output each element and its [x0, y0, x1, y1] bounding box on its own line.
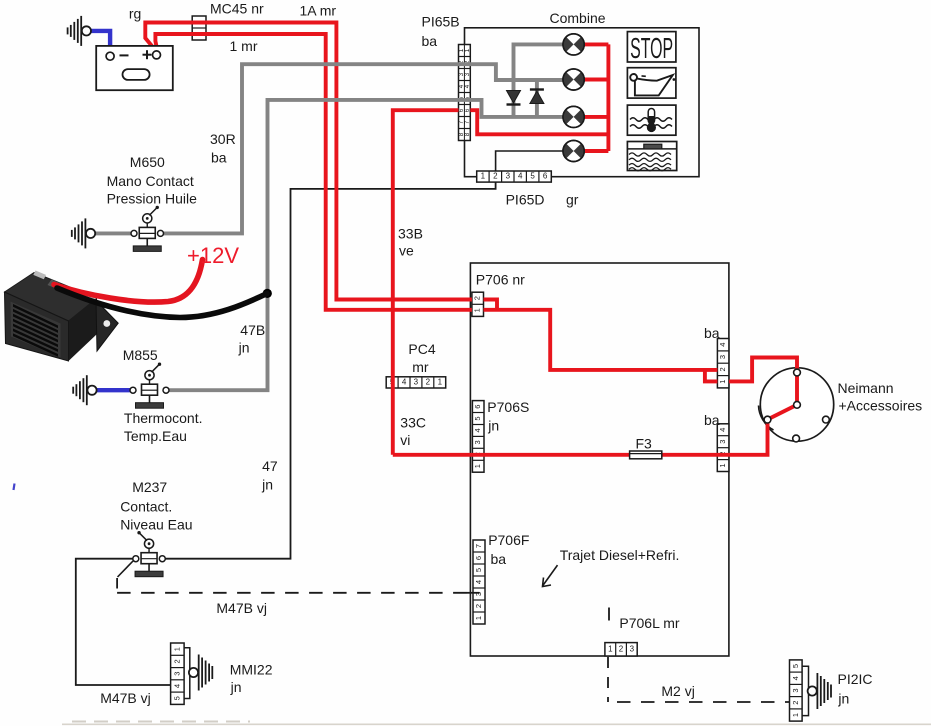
Neimann port left — [764, 416, 771, 423]
wire 47B jn: M855 to PI65B pin5 and lamp3 — [166, 100, 563, 390]
svg-text:5: 5 — [474, 568, 483, 572]
svg-text:ba: ba — [491, 551, 507, 567]
connector P706L — [605, 643, 637, 656]
svg-text:3: 3 — [630, 644, 635, 653]
svg-text:6: 6 — [464, 108, 471, 112]
svg-text:5: 5 — [791, 664, 800, 668]
svg-text:5: 5 — [530, 172, 535, 181]
svg-text:4: 4 — [791, 676, 800, 680]
svg-text:jn: jn — [261, 477, 273, 493]
svg-text:rg: rg — [129, 6, 141, 22]
ground battery — [68, 16, 91, 46]
Neimann port center — [794, 401, 801, 408]
svg-text:7: 7 — [474, 544, 483, 548]
svg-text:Pression Huile: Pression Huile — [107, 191, 197, 207]
svg-text:2: 2 — [474, 604, 483, 608]
wire P706 pin2 loop — [484, 300, 498, 310]
svg-text:2: 2 — [619, 644, 624, 653]
faint scan line bottom — [62, 723, 931, 725]
dashed wire M2 vj vertical — [607, 657, 609, 702]
Combine instrument-cluster box — [465, 28, 700, 177]
wire battery ground (blue) — [91, 31, 111, 52]
svg-text:PC4: PC4 — [408, 341, 435, 357]
svg-text:M855: M855 — [123, 347, 158, 363]
icon coolant level — [627, 142, 676, 171]
svg-text:3: 3 — [172, 672, 181, 676]
svg-text:3: 3 — [473, 440, 482, 444]
connector PC4 — [386, 377, 446, 388]
svg-text:MC45 nr: MC45 nr — [210, 1, 264, 17]
svg-text:4: 4 — [473, 428, 482, 432]
svg-text:ba: ba — [211, 150, 227, 166]
MMI22 mating bracket — [184, 648, 190, 699]
slash at M237 contact — [118, 561, 134, 578]
connector PI65D — [477, 171, 552, 182]
svg-text:3: 3 — [718, 355, 727, 359]
svg-text:47: 47 — [262, 458, 278, 474]
icon water temperature — [627, 105, 676, 135]
svg-text:4: 4 — [464, 84, 471, 88]
svg-text:F3: F3 — [636, 436, 653, 452]
svg-text:jn: jn — [487, 418, 499, 434]
svg-text:P706F: P706F — [488, 532, 529, 548]
svg-text:7: 7 — [464, 120, 471, 124]
wire M855 ground (blue) — [95, 388, 133, 392]
dash segment through P706F pin3 — [467, 592, 480, 594]
svg-text:6: 6 — [474, 556, 483, 560]
svg-text:M650: M650 — [130, 154, 165, 170]
ground M650 — [72, 218, 95, 248]
svg-text:jn: jn — [238, 340, 250, 356]
switch M237 niveau eau — [133, 531, 166, 577]
diode D1 (left, pointing down) — [507, 91, 521, 105]
dashed wire M2 vj horizontal — [617, 701, 790, 703]
lamp L3 temp — [563, 106, 584, 127]
lamp bus vertical — [606, 44, 610, 151]
svg-text:2: 2 — [493, 172, 498, 181]
lamp1 red stub — [584, 42, 608, 46]
wire M237 to MMI22 — [76, 559, 171, 685]
buzzer (photo) — [5, 260, 268, 362]
svg-text:gr: gr — [566, 192, 579, 208]
svg-text:5: 5 — [172, 696, 181, 700]
Neimann port top — [794, 369, 801, 376]
svg-text:Thermocont.: Thermocont. — [124, 410, 203, 426]
svg-text:1: 1 — [473, 464, 482, 468]
wire 30R ba: M650 to PI65B pin2 and lamp2 — [161, 64, 564, 233]
scan artifact blue tick — [14, 484, 15, 491]
svg-text:8: 8 — [464, 132, 471, 136]
svg-text:1: 1 — [464, 48, 471, 52]
wire lamp1 feed / diode stem — [514, 44, 564, 117]
svg-text:4: 4 — [518, 172, 523, 181]
node junction 47B — [263, 289, 272, 298]
svg-text:3: 3 — [414, 378, 419, 387]
svg-text:Combine: Combine — [550, 10, 606, 26]
battery — [96, 46, 173, 90]
svg-text:47B: 47B — [240, 322, 265, 338]
svg-text:P706S: P706S — [487, 399, 529, 415]
icon STOP — [627, 32, 676, 66]
Neimann port bottom — [793, 435, 800, 442]
ground PI2IC — [808, 673, 831, 709]
ground M855 — [73, 375, 96, 405]
svg-text:M47B vj: M47B vj — [216, 600, 267, 616]
switch M855 thermocontact — [130, 363, 169, 409]
svg-text:2: 2 — [791, 701, 800, 705]
svg-text:3: 3 — [791, 688, 800, 692]
svg-text:2: 2 — [718, 367, 727, 371]
svg-text:PI65D: PI65D — [506, 192, 545, 208]
svg-text:PI65B: PI65B — [422, 14, 460, 30]
connector P706S — [472, 401, 484, 473]
wire P706 pin1 to ba upper — [484, 310, 718, 370]
wire 33C vi / F3 to Neimann — [393, 421, 768, 455]
svg-text:6: 6 — [543, 172, 548, 181]
svg-text:ve: ve — [399, 243, 414, 259]
PI2IC mating bracket — [802, 666, 808, 715]
ground MMI22 — [189, 655, 212, 691]
svg-text:3: 3 — [718, 440, 727, 444]
svg-text:4: 4 — [718, 343, 727, 347]
svg-text:1: 1 — [791, 713, 800, 717]
svg-text:M47B vj: M47B vj — [100, 690, 151, 706]
svg-text:Trajet Diesel+Refri.: Trajet Diesel+Refri. — [560, 547, 680, 563]
svg-text:ba: ba — [422, 33, 438, 49]
svg-text:MMI22: MMI22 — [230, 662, 273, 678]
svg-text:4: 4 — [402, 378, 407, 387]
connector P706 nr — [472, 292, 484, 316]
svg-text:ba: ba — [704, 412, 720, 428]
wire 47 jn: PI65D pin2 to M237 — [166, 182, 496, 559]
svg-text:P706 nr: P706 nr — [476, 272, 525, 288]
svg-text:33B: 33B — [398, 226, 423, 242]
svg-text:1: 1 — [473, 308, 482, 312]
svg-text:4: 4 — [172, 684, 181, 688]
svg-text:1: 1 — [481, 172, 486, 181]
svg-text:vi: vi — [400, 432, 410, 448]
svg-text:M2 vj: M2 vj — [661, 683, 694, 699]
diode D2 (right, pointing up) — [530, 90, 544, 104]
wire lamp4 to PI65D pin2 — [496, 151, 563, 171]
svg-text:3: 3 — [464, 72, 471, 76]
Neimann port right — [823, 416, 830, 423]
wire PI65B pin6 to lamp bus — [470, 110, 608, 134]
lamp L1 stop — [563, 34, 584, 55]
connector ba lower — [717, 424, 729, 472]
svg-text:2: 2 — [172, 659, 181, 663]
Neimann ignition switch body — [760, 368, 833, 441]
wire MC45 nr (battery + to top rail) — [145, 23, 472, 300]
svg-text:Niveau Eau: Niveau Eau — [120, 517, 192, 533]
svg-text:jn: jn — [837, 691, 849, 707]
connector ba upper — [717, 339, 729, 388]
connector PI2IC — [790, 660, 803, 721]
svg-text:1: 1 — [718, 463, 727, 467]
fuse F3 — [630, 451, 662, 459]
svg-text:Mano Contact: Mano Contact — [107, 173, 194, 189]
svg-text:4: 4 — [718, 428, 727, 432]
svg-text:mr: mr — [412, 359, 429, 375]
lamp L4 coolant — [563, 140, 584, 161]
svg-text:1: 1 — [608, 644, 613, 653]
svg-text:M237: M237 — [132, 479, 167, 495]
svg-text:P706L mr: P706L mr — [619, 615, 680, 631]
svg-text:Temp.Eau: Temp.Eau — [124, 428, 187, 444]
svg-text:+12V: +12V — [187, 243, 239, 268]
svg-text:PI2IC: PI2IC — [838, 671, 873, 687]
svg-text:Neimann: Neimann — [838, 380, 894, 396]
svg-text:1: 1 — [718, 380, 727, 384]
wire diode2 stem — [535, 80, 539, 117]
svg-text:1: 1 — [172, 647, 181, 651]
arrow Trajet pointer — [543, 565, 558, 586]
svg-text:1A mr: 1A mr — [300, 3, 337, 19]
wire branch to ba upper pin1 — [705, 370, 718, 382]
switch M650 mano contact — [131, 206, 164, 252]
svg-text:6: 6 — [473, 405, 482, 409]
svg-text:4: 4 — [474, 580, 483, 584]
svg-text:3: 3 — [506, 172, 511, 181]
wire 33B ve — [393, 110, 459, 455]
lamp L2 oil — [563, 69, 584, 90]
connector P706F — [473, 540, 485, 624]
svg-text:jn: jn — [230, 679, 242, 695]
lamp2 red stub — [584, 78, 608, 82]
connector MC45 — [192, 16, 206, 40]
svg-text:ba: ba — [704, 325, 720, 341]
svg-text:2: 2 — [426, 378, 431, 387]
P706 unit box — [470, 263, 729, 656]
lamp3 red stub — [584, 115, 608, 119]
icon oil pressure — [627, 68, 676, 98]
wire 1 mr (battery + second rail) — [155, 34, 472, 310]
connector MMI22 — [171, 643, 185, 704]
wire ba upper to Neimann top — [729, 358, 797, 420]
tick below M237 — [116, 578, 118, 589]
svg-text:5: 5 — [473, 416, 482, 420]
svg-text:1: 1 — [438, 378, 443, 387]
svg-text:+Accessoires: +Accessoires — [839, 398, 923, 414]
svg-text:Contact.: Contact. — [120, 499, 172, 515]
svg-text:30R: 30R — [210, 131, 236, 147]
svg-text:33C: 33C — [400, 415, 426, 431]
connector PI65B — [458, 45, 471, 141]
svg-text:1 mr: 1 mr — [230, 38, 258, 54]
faint dashes bottom-left — [72, 721, 250, 723]
Neimann travel arc — [759, 406, 774, 431]
svg-text:STOP: STOP — [630, 33, 673, 65]
wire M650 ground link — [95, 231, 137, 235]
lamp4 red stub — [584, 149, 608, 153]
dashed wire M47B vj — [117, 592, 479, 594]
tick above P706L — [608, 608, 610, 621]
svg-text:1: 1 — [474, 616, 483, 620]
svg-text:2: 2 — [473, 296, 482, 300]
